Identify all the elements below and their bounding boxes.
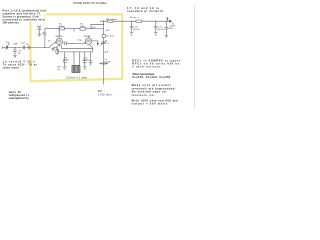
svg-text:47pF: 47pF — [13, 43, 18, 45]
svg-text:output = 200 watts: output = 200 watts — [132, 102, 169, 106]
svg-text:1700 ohm: 1700 ohm — [98, 94, 112, 97]
svg-text:1 inch resistor: 1 inch resistor — [132, 65, 160, 69]
svg-text:w/amplified #y: w/amplified #y — [8, 96, 30, 100]
svg-text:6SJ7GT: 6SJ7GT — [56, 36, 64, 38]
svg-text:µF 25v: µF 25v — [63, 60, 70, 62]
svg-text:µF 25v: µF 25v — [83, 60, 90, 62]
svg-text:resistors, no.: resistors, no. — [132, 93, 155, 97]
svg-text:300µF: 300µF — [104, 62, 111, 64]
svg-text:standard pi network: standard pi network — [127, 9, 164, 13]
svg-text:100 ohm res.: 100 ohm res. — [3, 20, 20, 24]
svg-text:6sn230, 6sn292, 6sn280: 6sn230, 6sn292, 6sn280 — [132, 75, 171, 79]
svg-text:W cap - c: W cap - c — [130, 17, 139, 19]
svg-text:WE 4µH out: WE 4µH out — [106, 18, 118, 21]
svg-text:µF 25v: µF 25v — [133, 29, 140, 31]
svg-text:µF 25v: µF 25v — [158, 29, 165, 31]
svg-text:B+ 250v: B+ 250v — [106, 36, 115, 38]
svg-text:raise input: raise input — [3, 65, 19, 69]
svg-text:25µF: 25µF — [37, 26, 43, 28]
svg-text:SOME KIND OF Amplifier: SOME KIND OF Amplifier — [73, 1, 107, 5]
svg-text:125mw 4.1 amp: 125mw 4.1 amp — [66, 77, 88, 80]
svg-text:6SJ7GT: 6SJ7GT — [84, 36, 92, 38]
